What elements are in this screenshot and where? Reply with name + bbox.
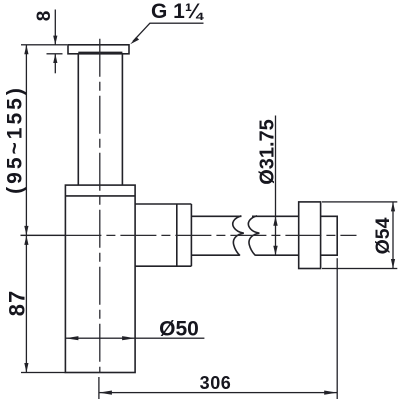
pipe break squiggle left: [233, 216, 244, 256]
dim O54: bottom arrow pointing down: [391, 259, 395, 269]
outlet centerline extension to left: [21, 235, 66, 236]
horizontal centerline solid left part: [21, 234, 66, 236]
dim 306: right arrow pointing right: [324, 391, 337, 395]
dim 306: right extension line: [337, 258, 338, 399]
dim O54: top extension line: [322, 201, 397, 202]
dim (95~155): bottom arrow pointing down: [24, 226, 28, 236]
dim 306: left arrow pointing left: [99, 391, 112, 395]
outlet pipe bottom line segment 2: [255, 254, 298, 256]
svg-text:Ø54: Ø54: [372, 217, 394, 254]
svg-text:Ø31.75: Ø31.75: [257, 119, 279, 185]
outlet nut left face: [176, 204, 178, 266]
dim O54: top arrow pointing up: [391, 202, 395, 212]
dim O50: right arrow pointing right: [122, 336, 135, 340]
dim O54: bottom extension line: [322, 268, 397, 269]
dim 87: dimension line: [26, 235, 27, 372]
dim 8: extension line top (flange top extended left): [21, 44, 67, 45]
svg-text:306: 306: [200, 373, 232, 393]
vertical centerline: [99, 39, 101, 373]
svg-text:(95~155): (95~155): [4, 85, 27, 194]
dim 306: left extension line (pipe centerline extended down): [98, 377, 99, 399]
dim O54: dimension line: [392, 202, 393, 269]
pipe break squiggle right: [248, 216, 259, 256]
outlet stub top edge: [135, 203, 191, 205]
inlet pipe wall left: [77, 54, 79, 185]
horizontal centerline dash-dot: [65, 234, 356, 236]
dim (95~155): top arrow pointing up: [24, 45, 28, 55]
dim 8: dimension line upper segment: [55, 10, 56, 45]
cup bottom extension to left: [21, 372, 65, 373]
dim 8: extension line bottom: [47, 53, 63, 54]
leader G: underline: [150, 23, 204, 24]
dim 87: bottom arrow pointing down: [24, 363, 28, 373]
dim O50: left arrow pointing left: [65, 336, 78, 340]
dim 87: top arrow pointing up: [24, 235, 28, 245]
outlet nut right face: [190, 204, 192, 266]
svg-text:87: 87: [5, 290, 30, 316]
outlet stub bottom edge: [135, 265, 191, 267]
outlet pipe top line segment 1: [191, 215, 241, 217]
flange shoulder line: [78, 51, 122, 53]
inlet pipe wall right: [121, 54, 123, 185]
wall flange (escutcheon): [299, 202, 321, 269]
svg-text:8: 8: [34, 11, 55, 22]
dim O31.75: bottom arrow pointing down: [273, 246, 277, 256]
inlet flange: [68, 45, 129, 54]
outlet pipe top line segment 2: [252, 215, 299, 217]
dim 8: dimension line lower segment: [55, 54, 56, 74]
dim O50: dimension line: [65, 338, 204, 339]
dim O31.75: dimension line: [275, 116, 276, 256]
body lid joint line: [65, 195, 135, 197]
svg-text:G 1¼: G 1¼: [151, 0, 204, 23]
svg-text:Ø50: Ø50: [159, 317, 199, 340]
dim 8: upper arrow pointing down: [53, 36, 57, 45]
outlet pipe bottom line segment 1: [191, 254, 239, 256]
dim (95~155): dimension line: [26, 45, 27, 236]
dim 8: lower arrow pointing up: [53, 54, 57, 63]
dim O31.75: top arrow pointing up: [273, 216, 277, 226]
leader G: arrowhead: [130, 37, 139, 44]
pipe end stub: [321, 216, 338, 255]
dim 306: dimension line: [99, 392, 337, 393]
leader G: diagonal line: [133, 23, 150, 41]
trap body outline: [65, 185, 135, 372]
